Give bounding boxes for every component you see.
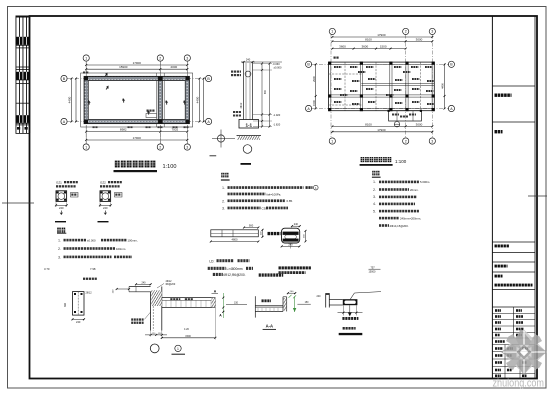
- svg-text:L>4800mm: L>4800mm: [227, 267, 243, 271]
- svg-text:4400: 4400: [68, 96, 72, 103]
- A-A green dim marks: [294, 296, 296, 312]
- A-A rebar ticks: [257, 308, 259, 312]
- svg-text:3000: 3000: [416, 37, 423, 41]
- left plan grid line 1: [85, 61, 87, 144]
- rcap caption line: [342, 317, 344, 320]
- svg-text:20mm.: 20mm.: [410, 188, 419, 192]
- svg-text:3: 3: [186, 56, 188, 60]
- scale dash 1: [55, 221, 66, 222]
- slab labels: [170, 298, 172, 300]
- svg-text:2Φ12: 2Φ12: [240, 102, 243, 108]
- junction top-left ledge: [129, 286, 151, 288]
- svg-text:15000: 15000: [369, 271, 377, 274]
- binding strip: [16, 16, 31, 135]
- wall bottom-left labels: [131, 318, 133, 320]
- grid bubble 1 bottom: [83, 144, 89, 150]
- grid extension lines: [85, 61, 87, 76]
- svg-text:2: 2: [405, 30, 407, 34]
- svg-text:900: 900: [264, 89, 267, 94]
- pier bottom dim: [73, 318, 85, 320]
- junction bubble circle: [150, 344, 159, 353]
- svg-text:1:20: 1:20: [184, 328, 189, 331]
- svg-text:4400: 4400: [196, 96, 200, 103]
- svg-text:0.85.: 0.85.: [287, 199, 294, 203]
- svg-text:4Φ14,15@200.: 4Φ14,15@200.: [390, 224, 409, 228]
- table vertical divider: [513, 307, 515, 338]
- notes header shuoming: [372, 171, 375, 176]
- svg-text:240: 240: [246, 58, 251, 62]
- A-A slab lines: [255, 305, 283, 307]
- scale bar: [241, 163, 252, 165]
- lintel beam elevation: [211, 230, 258, 237]
- left labels of column: [231, 71, 233, 73]
- A-A right dim bracket 240: [288, 292, 295, 294]
- svg-text:4Φ12,Φ6@200.: 4Φ12,Φ6@200.: [223, 273, 246, 277]
- svg-text:±0.000: ±0.000: [87, 238, 96, 242]
- grid bubble 3 top: [184, 55, 190, 61]
- svg-text:240: 240: [59, 206, 64, 210]
- svg-text:1.: 1.: [58, 239, 61, 243]
- svg-text:5.: 5.: [373, 209, 376, 213]
- title block dividers mid: [492, 241, 535, 243]
- left small dims: [233, 111, 235, 113]
- svg-text:900: 900: [249, 224, 254, 228]
- GZ column detail 2 dim: [100, 204, 111, 206]
- rcap title bar: [343, 327, 345, 330]
- svg-text:3: 3: [431, 139, 433, 143]
- svg-text:8100: 8100: [365, 122, 372, 126]
- strip footing outline: [81, 73, 193, 127]
- opening M500 at bottom: [146, 114, 157, 118]
- right plan interior beams: [359, 62, 361, 111]
- svg-text:17900: 17900: [133, 136, 142, 140]
- footing block 1-1: [239, 120, 259, 129]
- svg-text:1: 1: [177, 347, 179, 351]
- GZ column detail 2 square: [100, 191, 111, 202]
- leader lines junction: [145, 312, 151, 319]
- svg-text:1500: 1500: [185, 335, 191, 338]
- svg-text:Φ6@200: Φ6@200: [166, 283, 176, 286]
- svg-text:1500: 1500: [312, 100, 316, 106]
- foundation wall bottom: [84, 119, 189, 123]
- top dim row 2: [86, 68, 187, 70]
- svg-text:360: 360: [64, 302, 67, 307]
- foundation wall top: [84, 76, 189, 80]
- svg-text:15900: 15900: [119, 65, 128, 69]
- svg-text:2000: 2000: [170, 65, 177, 69]
- grid bubble B left: [61, 75, 67, 81]
- A-A slab label: [262, 299, 264, 302]
- GZ column detail 2 arrow: [104, 211, 107, 215]
- svg-text:4800: 4800: [232, 238, 238, 242]
- cell: design: [495, 130, 498, 133]
- svg-text:1.: 1.: [222, 186, 225, 190]
- notes continuation lines: [379, 217, 381, 220]
- lintel right side dim: [262, 230, 264, 237]
- ring beam note bold line 1: [279, 266, 281, 269]
- rcap center arrow: [349, 305, 351, 315]
- svg-text:240: 240: [317, 295, 322, 298]
- secondary beams dashed: [344, 62, 346, 111]
- capsule left bold label: [268, 232, 271, 235]
- partial beam at y84.5: [361, 82, 434, 84]
- capsule below tick: [290, 243, 292, 249]
- svg-text:zhulong.com: zhulong.com: [493, 378, 545, 390]
- capsule bottom dim: [282, 245, 300, 247]
- svg-text:1:100: 1:100: [395, 159, 407, 164]
- title block left edge: [491, 16, 493, 379]
- cell: drawing name label: [495, 275, 497, 278]
- svg-text:GZ2: GZ2: [100, 180, 106, 184]
- left dim column: [71, 79, 73, 122]
- column top tick: [241, 61, 255, 63]
- junction hatched wall block: [151, 290, 162, 306]
- svg-text:1.: 1.: [373, 180, 376, 184]
- bottom dim row 1: [86, 131, 187, 133]
- foundation wall left: [84, 76, 88, 123]
- cell: project label: [495, 245, 497, 248]
- top dim 17900: [86, 64, 187, 66]
- top level line: [254, 61, 282, 63]
- left plan grid line 3: [186, 61, 188, 144]
- svg-text:3.: 3.: [58, 255, 61, 259]
- right dim column: [199, 79, 201, 122]
- svg-text:2.: 2.: [373, 188, 376, 192]
- svg-text:17900: 17900: [377, 33, 386, 37]
- ring beam note line 2: [279, 271, 281, 274]
- right fold mark: [528, 195, 547, 197]
- right plan grid lines: [330, 35, 332, 139]
- svg-text:150: 150: [234, 302, 239, 305]
- cell: item label: [495, 265, 497, 268]
- grid bubble A left: [61, 118, 67, 124]
- wall edge outlines: [84, 76, 189, 123]
- right dim chain inner: [261, 64, 263, 127]
- svg-text:3600: 3600: [361, 45, 368, 49]
- svg-text:1: 1: [331, 30, 333, 34]
- svg-text:3600: 3600: [339, 45, 346, 49]
- svg-text:5.000m.: 5.000m.: [420, 180, 430, 184]
- svg-text:1:100: 1:100: [163, 164, 177, 170]
- foundation wall interior at grid 2: [158, 76, 162, 123]
- A-A right upturn: [282, 297, 284, 312]
- title block right inner edge: [534, 16, 536, 379]
- corner columns GZ: [84, 77, 88, 81]
- center notes header shuoming: [221, 173, 224, 178]
- ground hatch bar under footing: [238, 136, 261, 140]
- cell: drawing name content: [495, 284, 497, 287]
- svg-text:2: 2: [159, 145, 161, 149]
- level circle on column: [245, 71, 251, 77]
- svg-text:100mm.: 100mm.: [116, 247, 126, 251]
- right plan side dims: [315, 64, 317, 108]
- small B mark at plan top left: [334, 57, 336, 59]
- svg-text:2: 2: [159, 56, 161, 60]
- svg-text:17900: 17900: [133, 61, 142, 65]
- right plan bottom dim row: [332, 125, 432, 127]
- svg-text:1-1: 1-1: [245, 122, 252, 127]
- svg-text:1: 1: [331, 139, 333, 143]
- slab right dim with green marks: [222, 293, 224, 318]
- svg-text:1: 1: [85, 145, 87, 149]
- right plan wall outline: [329, 62, 435, 111]
- ring beam capsule section: [282, 228, 300, 243]
- small dash right of left plan: [210, 155, 217, 157]
- center note 1 line 2: [228, 193, 230, 196]
- wall base dims 120 120: [145, 334, 167, 336]
- wide bottom dim 1500: [162, 337, 216, 339]
- svg-text:±0.000: ±0.000: [274, 65, 282, 69]
- grid bubble B right: [206, 75, 212, 81]
- lintel top small dim: [244, 227, 258, 229]
- svg-text:3.: 3.: [373, 195, 376, 199]
- title: foundation plan layout: [115, 161, 120, 168]
- svg-text:240: 240: [288, 243, 293, 246]
- svg-text:LD:: LD:: [209, 259, 214, 263]
- svg-text:17900: 17900: [377, 128, 386, 132]
- rcap extension+dim below: [342, 305, 344, 315]
- grid bubble 2 top: [157, 55, 163, 61]
- grid bubble 1 top: [83, 55, 89, 61]
- right plan top dim row2: [332, 40, 432, 42]
- capsule right dim: [305, 231, 307, 242]
- lintel bottom dim: [211, 241, 258, 243]
- junction wall vertical lines: [150, 292, 152, 331]
- right dim chain outer: [269, 64, 271, 127]
- grid bubble 3 bottom: [184, 144, 190, 150]
- left notes header: [57, 228, 61, 233]
- svg-text:3000: 3000: [416, 122, 423, 126]
- svg-text:-1.620: -1.620: [273, 123, 281, 127]
- GZ column detail 1 side label: [71, 193, 79, 198]
- rcap capsule (black with white core): [343, 299, 358, 305]
- right plan title: [361, 157, 365, 162]
- GZ column detail 1 square: [56, 191, 67, 202]
- left plan grid line B: [67, 78, 206, 80]
- svg-text:A-A: A-A: [266, 324, 273, 329]
- section arrow marks: [104, 72, 109, 78]
- slab end hatch block: [212, 298, 216, 308]
- stair annex below plan: [389, 111, 422, 121]
- svg-text:GZ1: GZ1: [56, 180, 62, 184]
- svg-text:8982: 8982: [120, 128, 127, 132]
- right plan left bubbles B A: [306, 61, 312, 67]
- svg-text:fak=100Pa.: fak=100Pa.: [267, 192, 282, 196]
- bottom dim 17900: [86, 139, 187, 141]
- table cell texts: [495, 309, 497, 312]
- svg-text:8100: 8100: [365, 37, 372, 41]
- foundation wall right: [185, 76, 189, 123]
- A-A right line 150: [297, 303, 310, 305]
- grid bubble A right: [206, 118, 212, 124]
- rcap leader: [350, 293, 354, 299]
- column blobs: [328, 62, 331, 65]
- A-A left edge line: [254, 296, 256, 317]
- detail circle below: [243, 145, 252, 154]
- svg-text:3.: 3.: [222, 207, 225, 211]
- beam labels scattered: [334, 66, 336, 68]
- left plan grid line 2: [159, 61, 161, 144]
- svg-text:2Φ12: 2Φ12: [86, 292, 93, 295]
- svg-text:7002: 7002: [171, 128, 178, 132]
- svg-text:240: 240: [294, 223, 299, 226]
- circled 1 annotation: [314, 185, 319, 190]
- scale dash 2: [98, 221, 109, 222]
- svg-text:240mm×200mm,: 240mm×200mm,: [400, 216, 421, 220]
- svg-text:1500: 1500: [380, 45, 387, 49]
- svg-text:240: 240: [103, 206, 108, 210]
- svg-text:2.: 2.: [222, 199, 225, 203]
- svg-text:2.: 2.: [58, 247, 61, 251]
- svg-text:2900: 2900: [312, 76, 316, 82]
- svg-text:3: 3: [186, 145, 188, 149]
- svg-text:3: 3: [431, 30, 433, 34]
- column section 1-1: rebar lines: [245, 63, 247, 121]
- svg-text:2: 2: [405, 139, 407, 143]
- left plan grid line A: [67, 121, 206, 123]
- column section 1-1: shaft outer lines: [243, 62, 245, 121]
- svg-text:100mm,: 100mm,: [128, 238, 138, 242]
- svg-text:240: 240: [76, 320, 81, 324]
- svg-text:-1.020: -1.020: [273, 113, 281, 117]
- right plan top dim row3: [332, 48, 405, 50]
- svg-text:1: 1: [85, 56, 87, 60]
- GZ column detail 1 arrow: [60, 211, 63, 215]
- svg-text:240: 240: [142, 282, 147, 285]
- right plan bottom bubbles 1 2 3: [329, 138, 335, 144]
- ledge top dim 240: [136, 283, 151, 285]
- slab rebar ticks: [165, 300, 167, 307]
- GZ column detail 1 dim: [56, 204, 67, 206]
- capsule top dim: [292, 225, 300, 227]
- circled detail number 1: [175, 345, 181, 351]
- junction slab right: [162, 297, 216, 299]
- svg-text:757: 757: [371, 266, 376, 269]
- svg-text:4.: 4.: [373, 202, 376, 206]
- crosshair benchmark symbol: [217, 135, 224, 142]
- GZ column detail 2 side label: [115, 193, 123, 198]
- grid bubble 2 bottom: [157, 144, 163, 150]
- right plan top bubbles 1 2 3: [329, 28, 335, 34]
- right plan right bubbles B A: [448, 61, 454, 67]
- title block table rows: [492, 313, 535, 315]
- title block dividers upper: [492, 85, 535, 87]
- right plan bottom dim 17900: [332, 131, 432, 133]
- right plan top dim 17900: [332, 36, 432, 38]
- cell: construction unit: [495, 94, 498, 97]
- extension ticks right: [253, 63, 272, 65]
- rcap slab lines to capsule: [329, 298, 343, 300]
- pier detail rectangle: [73, 292, 85, 316]
- left fold mark: [2, 202, 34, 204]
- annex detail bubble: [394, 122, 399, 127]
- svg-text:4400: 4400: [441, 83, 445, 89]
- pier top label: [83, 278, 85, 280]
- svg-text:7.98: 7.98: [90, 267, 96, 271]
- ledge left dim: [117, 288, 129, 290]
- bottom wall tick labels: [93, 126, 95, 128]
- watermark logo (zhulong snowflake): [501, 329, 547, 375]
- svg-text:3.70: 3.70: [44, 267, 50, 271]
